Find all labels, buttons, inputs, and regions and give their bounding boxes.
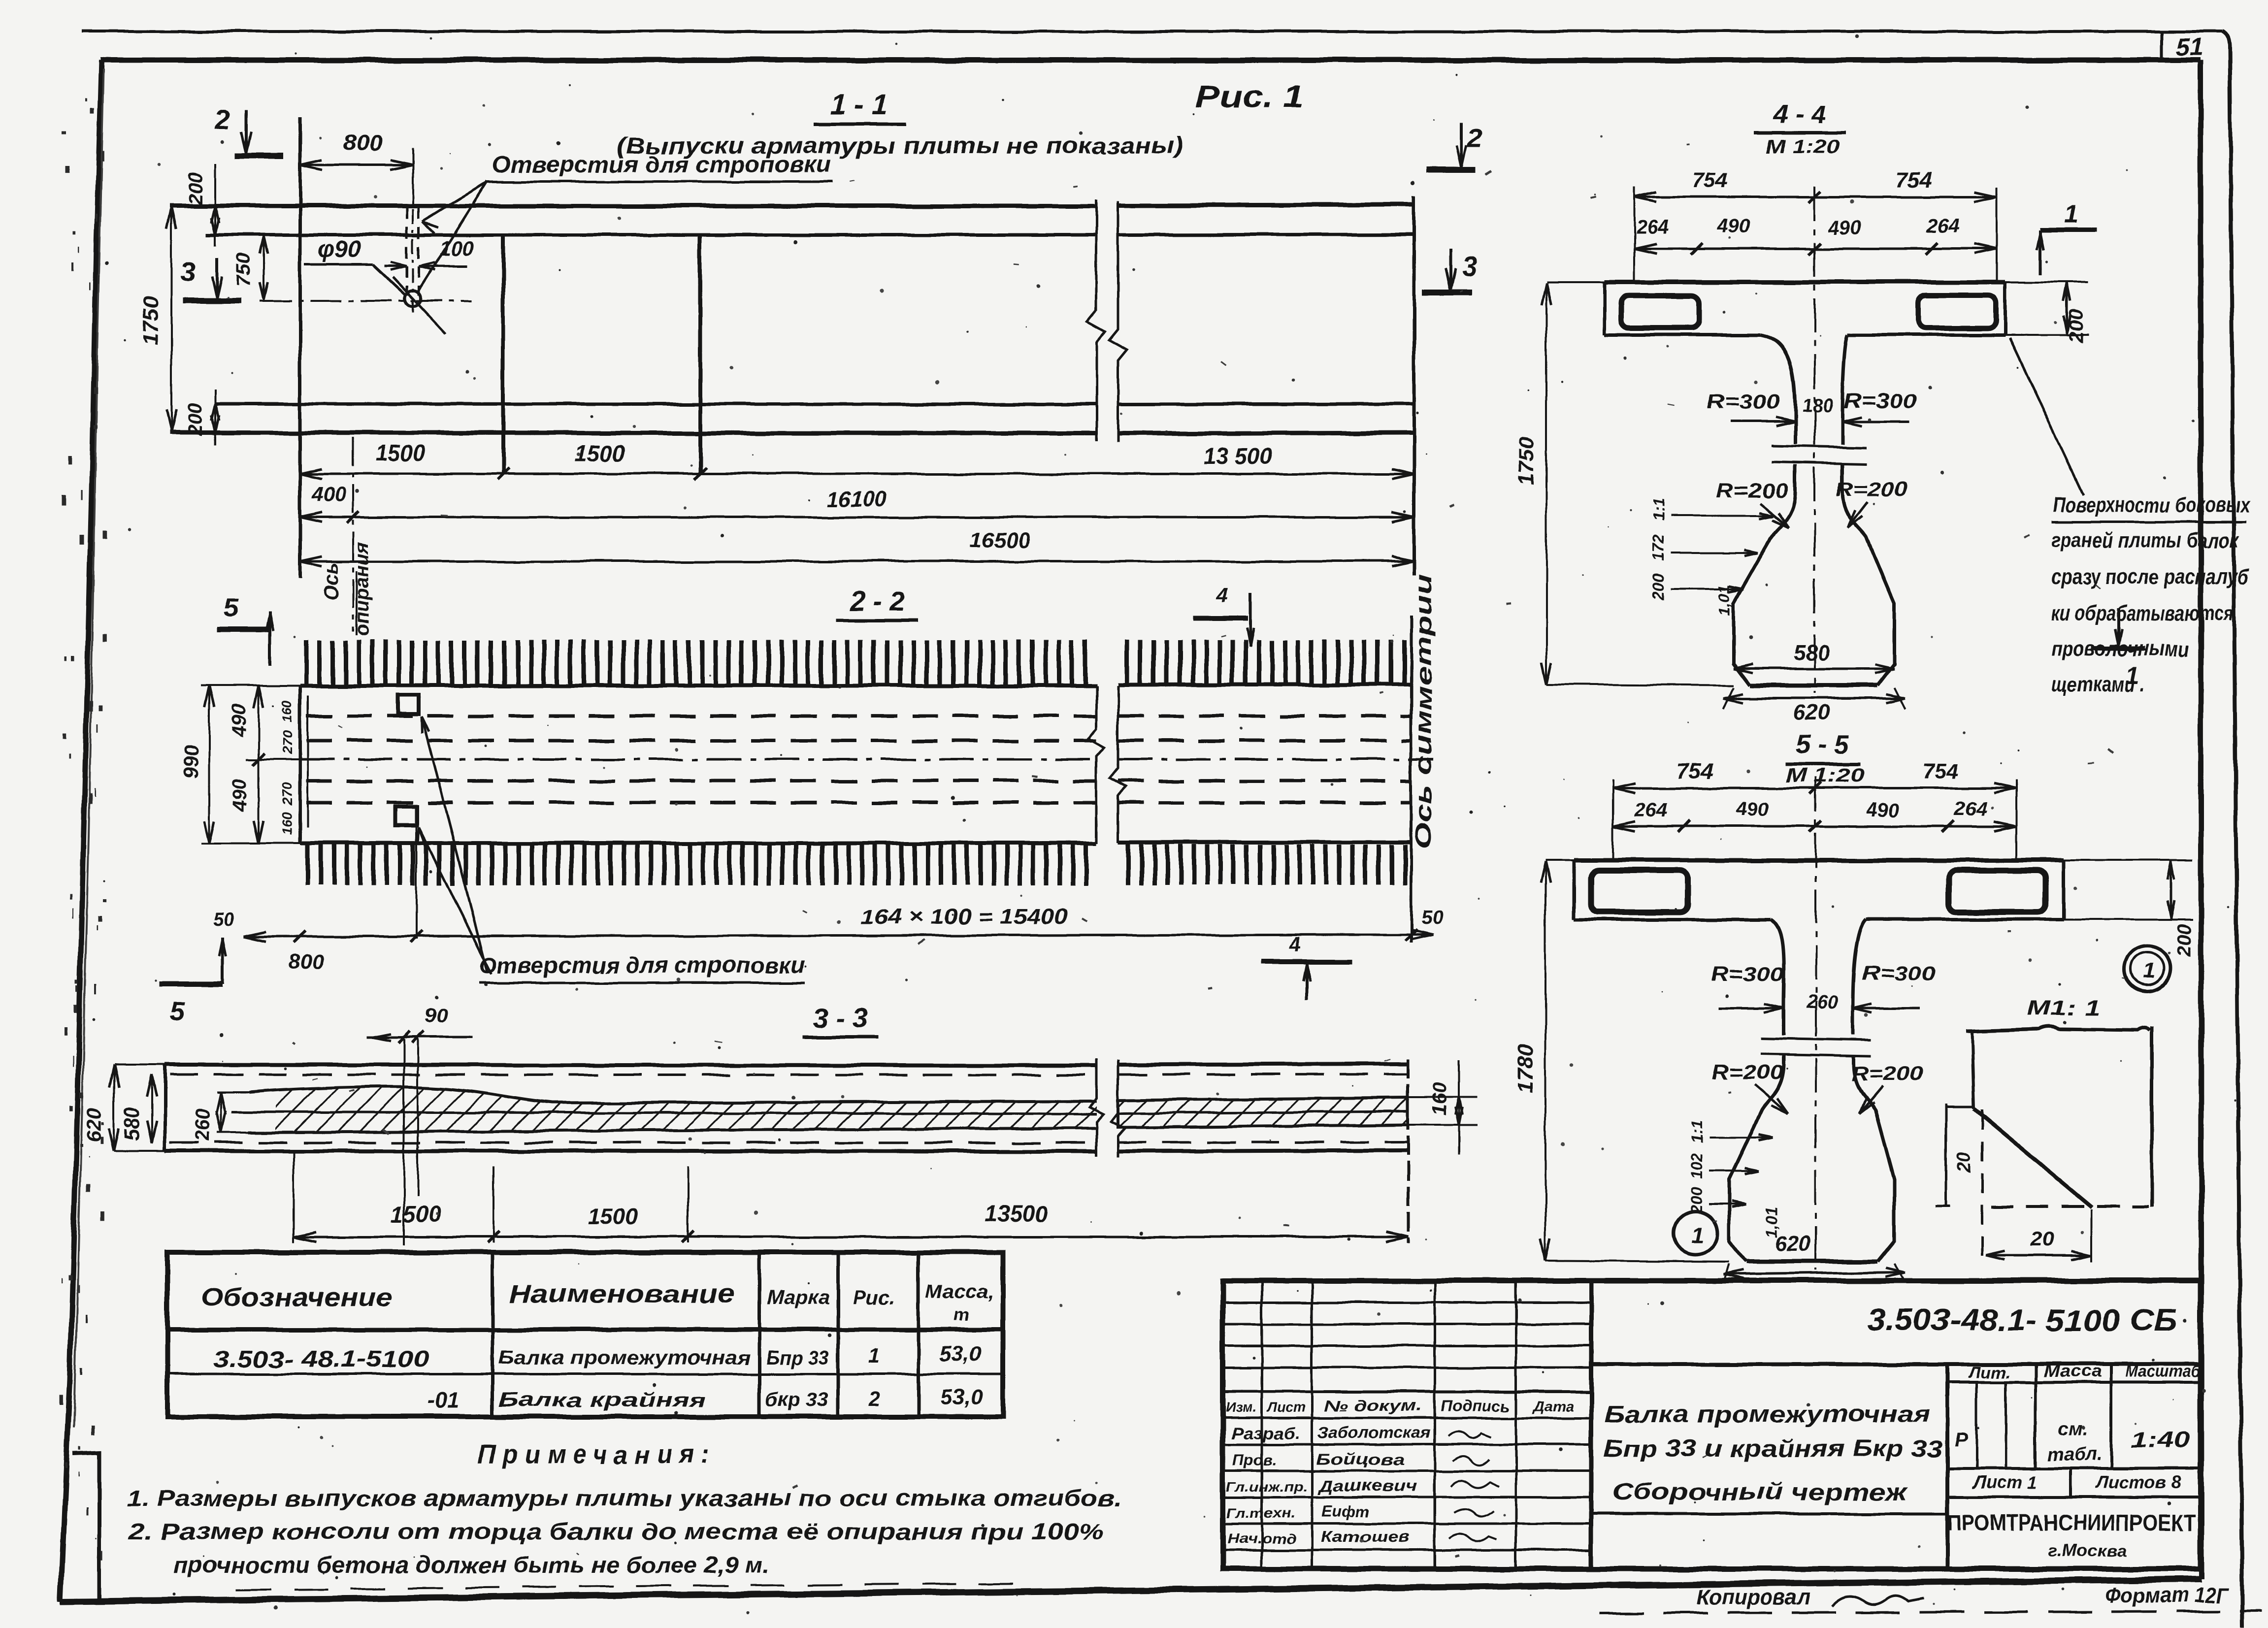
svg-text:2 - 2: 2 - 2 bbox=[850, 586, 905, 617]
3-3 bottom dim row bbox=[294, 1236, 1408, 1238]
svg-text:Бойцова: Бойцова bbox=[1316, 1450, 1405, 1468]
svg-text:табл.: табл. bbox=[2047, 1444, 2102, 1465]
svg-text:Отверстия для строповки: Отверстия для строповки bbox=[492, 152, 831, 177]
svg-text:1: 1 bbox=[2064, 200, 2078, 228]
svg-text:4 - 4: 4 - 4 bbox=[1773, 99, 1827, 129]
parts table col lines bbox=[491, 1252, 494, 1417]
svg-text:750: 750 bbox=[233, 254, 255, 287]
svg-text:264: 264 bbox=[1954, 798, 1988, 820]
3-3 dim 260 bbox=[220, 1092, 222, 1133]
title block right divider bbox=[1945, 1364, 1949, 1569]
5-5 bottom edge bbox=[1746, 1260, 1877, 1264]
scan noise specks bbox=[1455, 73, 1457, 75]
detail chamfer hypotenuse bbox=[1974, 1109, 2092, 1207]
3-3 hatched core right bbox=[1118, 1098, 1408, 1128]
svg-text:Еифт: Еифт bbox=[1321, 1502, 1370, 1520]
svg-text:800: 800 bbox=[288, 950, 325, 974]
svg-text:90: 90 bbox=[425, 1004, 448, 1027]
title block lit subcells bbox=[1975, 1382, 1978, 1468]
svg-text:проволочными: проволочными bbox=[2051, 637, 2189, 661]
svg-text:3.503-48.1- 5100 СБ: 3.503-48.1- 5100 СБ bbox=[1867, 1303, 2177, 1337]
detail balloon 1 double circle bbox=[2125, 946, 2170, 991]
svg-text:50: 50 bbox=[1421, 907, 1444, 928]
svg-text:2: 2 bbox=[1466, 123, 1482, 154]
svg-text:13 500: 13 500 bbox=[1203, 443, 1273, 469]
4-4 slab right edge bbox=[2004, 282, 2007, 335]
5-5 dim 620 bottom bbox=[1724, 1272, 1905, 1274]
svg-text:1 - 1: 1 - 1 bbox=[831, 89, 888, 121]
svg-text:1: 1 bbox=[2143, 959, 2155, 983]
svg-text:Балка промежуточная: Балка промежуточная bbox=[498, 1347, 751, 1368]
main border left (skewed rough) bbox=[61, 60, 101, 1601]
svg-text:400: 400 bbox=[311, 483, 346, 506]
3-3 core outline top bbox=[249, 1087, 1096, 1103]
svg-text:Подпись: Подпись bbox=[1441, 1397, 1510, 1415]
3-3 dim 620 bbox=[113, 1065, 115, 1151]
svg-text:бкр 33: бкр 33 bbox=[765, 1389, 828, 1411]
4-4 slab dim 200 right bbox=[2005, 281, 2088, 283]
4-4 dim line 754s bbox=[1634, 196, 1997, 198]
page outer top rule bbox=[82, 30, 2222, 33]
main border top bbox=[100, 58, 2201, 63]
title block left col lines bbox=[1261, 1281, 1263, 1569]
svg-text:R=200: R=200 bbox=[1716, 479, 1788, 502]
svg-text:754: 754 bbox=[1896, 168, 1932, 192]
5-5 slab right edge bbox=[2062, 860, 2066, 919]
svg-text:16500: 16500 bbox=[970, 528, 1030, 553]
svg-text:5 - 5: 5 - 5 bbox=[1796, 730, 1849, 759]
svg-text:Обозначение: Обозначение bbox=[200, 1283, 393, 1312]
main border right bbox=[2201, 60, 2202, 1579]
leader lines to holes 1-1 bbox=[423, 182, 487, 222]
4-4 center axis bbox=[1813, 186, 1815, 693]
svg-text:1: 1 bbox=[1691, 1222, 1704, 1248]
5-5 dim line 754s bbox=[1613, 787, 2016, 789]
svg-text:М 1:20: М 1:20 bbox=[1786, 765, 1865, 786]
extension for dim 800 bbox=[412, 148, 414, 207]
detail dim 20 bottom bbox=[1986, 1254, 2091, 1257]
svg-text:260: 260 bbox=[1806, 992, 1838, 1013]
svg-text:53,0: 53,0 bbox=[940, 1385, 983, 1409]
svg-text:5: 5 bbox=[170, 997, 185, 1026]
4-4 neck dim arrows bbox=[1730, 421, 1795, 423]
svg-text:160: 160 bbox=[1429, 1083, 1450, 1116]
3-3 dim 160 right bbox=[1408, 1097, 1478, 1099]
svg-text:R=200: R=200 bbox=[1836, 478, 1907, 501]
svg-text:270: 270 bbox=[279, 782, 295, 806]
5-5 web right profile bbox=[1853, 919, 1894, 1262]
5-5 slab left edge bbox=[1573, 860, 1576, 919]
svg-text:М 1:20: М 1:20 bbox=[1766, 136, 1840, 158]
title block list row line bbox=[1947, 1467, 2201, 1470]
svg-text:180: 180 bbox=[1802, 395, 1833, 416]
svg-text:ки обрабатываются: ки обрабатываются bbox=[2051, 601, 2234, 625]
5-5 height dim 1780 bbox=[1545, 861, 1546, 1261]
bearing axis dash-dot bbox=[352, 437, 354, 631]
4-4 dim extensions bbox=[1633, 187, 1635, 282]
svg-text:1750: 1750 bbox=[1514, 437, 1539, 485]
svg-text:Гл.техн.: Гл.техн. bbox=[1226, 1505, 1295, 1521]
svg-text:Лит.: Лит. bbox=[1968, 1363, 2010, 1382]
page number box divider bbox=[2160, 32, 2163, 60]
beam 1-1 break line b bbox=[1109, 201, 1127, 442]
leader lines to holes 2-2 bbox=[422, 716, 488, 973]
svg-text:Листов 8: Листов 8 bbox=[2095, 1472, 2180, 1492]
svg-text:R=200: R=200 bbox=[1851, 1062, 1923, 1085]
svg-text:№ докум.: № докум. bbox=[1324, 1397, 1422, 1415]
2-2 hole extension line bbox=[415, 827, 417, 940]
4-4 slab void left bbox=[1621, 295, 1699, 328]
svg-text:Отверстия для строповки: Отверстия для строповки bbox=[479, 952, 804, 978]
svg-text:264: 264 bbox=[1926, 215, 1960, 237]
dim 200 bottom left bbox=[214, 389, 216, 446]
svg-text:Бпр 33 и крайняя Бкр 33: Бпр 33 и крайняя Бкр 33 bbox=[1603, 1436, 1943, 1462]
svg-text:Дата: Дата bbox=[1532, 1399, 1574, 1415]
svg-text:Рис.: Рис. bbox=[854, 1287, 895, 1308]
svg-text:580: 580 bbox=[1793, 641, 1830, 665]
svg-text:М1: 1: М1: 1 bbox=[2027, 996, 2101, 1020]
svg-text:754: 754 bbox=[1677, 759, 1713, 783]
svg-text:260: 260 bbox=[192, 1108, 213, 1142]
svg-text:1,01: 1,01 bbox=[1715, 585, 1733, 615]
dim 750 left bbox=[263, 235, 265, 301]
3-3 break line a bbox=[1089, 1059, 1103, 1156]
5-5 slab dim 200 right bbox=[2064, 859, 2193, 861]
svg-text:1. Размеры выпусков арматуры п: 1. Размеры выпусков арматуры плиты указа… bbox=[127, 1485, 1121, 1511]
3-3 break line b bbox=[1111, 1060, 1125, 1157]
svg-text:Ось: Ось bbox=[321, 562, 342, 600]
beam 1-1 inner top line bbox=[206, 233, 1096, 237]
svg-text:102: 102 bbox=[1688, 1153, 1706, 1179]
svg-text:Лист 1: Лист 1 bbox=[1972, 1472, 2038, 1492]
svg-text:щетками .: щетками . bbox=[2051, 672, 2145, 696]
svg-text:опирания: опирания bbox=[351, 542, 373, 636]
2-2 outline bottom edge bbox=[300, 841, 1096, 845]
5-5 slab void left bbox=[1591, 871, 1688, 912]
svg-text:53,0: 53,0 bbox=[939, 1342, 982, 1366]
svg-text:2: 2 bbox=[214, 104, 230, 135]
dim 1750 left bbox=[170, 207, 172, 432]
2-2 bottom rebar comb left bbox=[305, 845, 310, 885]
beam 1-1 inner bottom line bbox=[215, 404, 1096, 404]
beam 1-1 break line a bbox=[1087, 199, 1105, 441]
svg-text:Копировал: Копировал bbox=[1697, 1585, 1810, 1609]
5-5 height dim extensions bbox=[1545, 859, 1574, 861]
svg-text:Гл.инж.пр.: Гл.инж.пр. bbox=[1226, 1479, 1308, 1494]
4-4 slab void right bbox=[1918, 295, 1996, 328]
parts table outer bbox=[167, 1252, 1003, 1417]
svg-text:3 - 3: 3 - 3 bbox=[813, 1002, 868, 1033]
4-4 dim 620 bbox=[1724, 697, 1905, 700]
svg-text:Лист: Лист bbox=[1267, 1400, 1306, 1415]
svg-text:1500: 1500 bbox=[575, 440, 625, 466]
detail bottom dashed bbox=[1991, 1205, 2149, 1208]
svg-text:1780: 1780 bbox=[1513, 1044, 1538, 1093]
4-4 dim line 264s bbox=[1634, 248, 1997, 250]
svg-text:51: 51 bbox=[2176, 33, 2203, 61]
svg-text:490: 490 bbox=[1717, 215, 1750, 237]
svg-text:3: 3 bbox=[1462, 251, 1477, 282]
parts table row line bbox=[167, 1373, 1003, 1375]
2-2 dim extension top bbox=[201, 684, 300, 686]
svg-text:490: 490 bbox=[1866, 799, 1899, 821]
svg-text:2. Размер консоли от торца бал: 2. Размер консоли от торца балки до мест… bbox=[129, 1519, 1104, 1544]
side note underline bbox=[2051, 521, 2246, 523]
svg-text:200: 200 bbox=[2065, 310, 2087, 343]
2-2 dashed strand row 3 bbox=[306, 780, 1096, 783]
svg-text:490: 490 bbox=[229, 779, 251, 813]
2-2 dim extension mid bbox=[246, 758, 305, 760]
4-4 slab left edge bbox=[1603, 282, 1607, 335]
svg-text:264: 264 bbox=[1634, 799, 1668, 821]
4-4 neck break marks bbox=[1772, 446, 1867, 448]
notes area inner border jog bbox=[73, 1453, 99, 1599]
svg-text:172: 172 bbox=[1649, 534, 1667, 561]
3-3 left end bbox=[164, 1065, 167, 1151]
hole offset dim 100 bbox=[384, 265, 407, 267]
svg-text:160: 160 bbox=[279, 812, 295, 835]
svg-text:3: 3 bbox=[180, 256, 196, 287]
svg-text:Марка: Марка bbox=[767, 1287, 830, 1308]
svg-text:Нач.отд: Нач.отд bbox=[1227, 1531, 1296, 1547]
svg-text:ПРОМТРАНСНИИПРОЕКТ: ПРОМТРАНСНИИПРОЕКТ bbox=[1947, 1510, 2196, 1535]
lifting hole diagonal slash bbox=[393, 277, 446, 334]
beam 1-1 top edge bbox=[169, 204, 1096, 208]
3-3 right end bbox=[1407, 1059, 1410, 1243]
2-2 top rebar comb left bbox=[304, 640, 309, 684]
svg-text:1750: 1750 bbox=[138, 297, 163, 345]
svg-text:13500: 13500 bbox=[985, 1201, 1048, 1226]
2-2 dashed strand row 1 bbox=[306, 715, 1096, 718]
svg-text:200: 200 bbox=[1649, 574, 1667, 601]
dim row 400 16100 bbox=[300, 516, 1414, 519]
svg-text:3.503- 48.1-5100: 3.503- 48.1-5100 bbox=[213, 1346, 430, 1372]
4-4 leader to note bbox=[2009, 338, 2083, 495]
5-5 slab void right bbox=[1948, 871, 2046, 912]
2-2 dashed strand row 2 bbox=[306, 739, 1096, 743]
4-4 bottom edge bbox=[1750, 684, 1877, 688]
svg-text:754: 754 bbox=[1922, 759, 1958, 783]
4-4 web right profile bbox=[1842, 335, 1894, 685]
dim row 16500 bbox=[300, 560, 1414, 563]
svg-text:580: 580 bbox=[120, 1107, 143, 1141]
detail right edge bbox=[2150, 1026, 2154, 1207]
title block lit header bbox=[2034, 1364, 2037, 1468]
3-3 dim extensions bbox=[293, 1152, 295, 1243]
2-2 lifting hole lower bbox=[396, 807, 417, 825]
svg-text:Масса,: Масса, bbox=[925, 1281, 994, 1302]
svg-text:1:1: 1:1 bbox=[1649, 498, 1667, 521]
svg-text:200: 200 bbox=[2173, 924, 2195, 958]
beam 1-1 left end bbox=[298, 117, 302, 579]
main border bottom bbox=[61, 1579, 2202, 1601]
svg-text:Формат 12Г: Формат 12Г bbox=[2105, 1583, 2230, 1607]
svg-text:1500: 1500 bbox=[588, 1204, 638, 1229]
dim 200 top left bbox=[214, 163, 216, 246]
svg-text:264: 264 bbox=[1636, 216, 1669, 238]
svg-text:1500: 1500 bbox=[391, 1202, 441, 1227]
4-4 dim 580 bbox=[1734, 668, 1894, 670]
svg-text:Ось симметрии: Ось симметрии bbox=[1411, 574, 1436, 849]
svg-text:R=300: R=300 bbox=[1710, 962, 1784, 985]
2-2 dim 990 bbox=[208, 685, 210, 843]
svg-text:т: т bbox=[953, 1304, 969, 1325]
svg-text:490: 490 bbox=[1736, 798, 1769, 820]
svg-text:800: 800 bbox=[344, 130, 382, 156]
svg-text:1:40: 1:40 bbox=[2131, 1427, 2190, 1453]
title block outer bbox=[1223, 1281, 2201, 1569]
svg-text:Пров.: Пров. bbox=[1233, 1451, 1277, 1469]
svg-text:2: 2 bbox=[868, 1387, 880, 1410]
3-3 core outline bottom bbox=[249, 1128, 1096, 1133]
svg-text:5: 5 bbox=[223, 593, 238, 622]
lifting hole circle bbox=[405, 291, 421, 306]
3-3 dim 580 bbox=[151, 1074, 153, 1143]
svg-text:20: 20 bbox=[1954, 1152, 1974, 1173]
svg-text:4: 4 bbox=[1216, 583, 1228, 606]
notes dashed underline bbox=[236, 1583, 1034, 1590]
5-5 slab bottom edge bbox=[1574, 918, 1771, 921]
2-2 dim line 490/490 bbox=[258, 685, 260, 843]
dim 800 top bbox=[300, 164, 413, 166]
svg-text:200: 200 bbox=[185, 172, 206, 205]
title area divider bbox=[1591, 1512, 1947, 1515]
4-4 slab top edge bbox=[1605, 280, 2005, 285]
svg-text:Катошев: Катошев bbox=[1321, 1528, 1410, 1546]
svg-text:Балка промежуточная: Балка промежуточная bbox=[1605, 1401, 1930, 1428]
parts table header line bbox=[167, 1328, 1003, 1332]
2-2 right end bbox=[1410, 615, 1413, 943]
2-2 dashed strand row 4 bbox=[306, 801, 1096, 805]
svg-text:490: 490 bbox=[1828, 217, 1861, 239]
detail strip left bbox=[1945, 1104, 1948, 1206]
2-2 bottom dim line bbox=[244, 935, 1433, 937]
svg-text:Заболотская: Заболотская bbox=[1317, 1424, 1431, 1441]
svg-text:160: 160 bbox=[279, 700, 295, 723]
beam 1-1 right end bbox=[1413, 196, 1416, 575]
title block main divider bbox=[1589, 1281, 1594, 1569]
svg-text:Сборочный чертеж: Сборочный чертеж bbox=[1611, 1479, 1908, 1505]
svg-text:граней плиты балок: граней плиты балок bbox=[2051, 528, 2239, 553]
5-5 slab top edge bbox=[1574, 858, 2064, 863]
5-5 neck dim arrows bbox=[1719, 1008, 1784, 1010]
5-5 neck break marks bbox=[1761, 1038, 1872, 1040]
svg-text:Рис. 1: Рис. 1 bbox=[1195, 79, 1304, 114]
5-5 web left profile bbox=[1729, 919, 1784, 1262]
2-2 outline top edge bbox=[300, 684, 1096, 687]
svg-text:прочности бетона должен быть н: прочности бетона должен быть не более 2,… bbox=[173, 1552, 769, 1578]
svg-text:Масса: Масса bbox=[2043, 1362, 2102, 1381]
2-2 bottom rebar comb right bbox=[1126, 845, 1130, 885]
svg-text:-01: -01 bbox=[427, 1388, 460, 1413]
2-2 break line a bbox=[1088, 685, 1104, 843]
svg-text:φ90: φ90 bbox=[317, 236, 360, 262]
3-3 top edge bbox=[165, 1065, 1096, 1066]
2-2 top rebar comb right bbox=[1125, 640, 1129, 684]
dim row 1500 1500 13500 bbox=[300, 473, 1414, 475]
beam 1-1 extension line at 1500 tick b bbox=[698, 236, 702, 474]
4-4 web left profile bbox=[1734, 335, 1795, 685]
svg-text:сразу после распалуб: сразу после распалуб bbox=[2051, 565, 2249, 589]
svg-text:50: 50 bbox=[213, 909, 235, 930]
2-2 dim extension bottom bbox=[201, 842, 300, 844]
svg-text:R=300: R=300 bbox=[1862, 961, 1936, 984]
svg-text:990: 990 bbox=[179, 745, 202, 780]
svg-text:Дашкевич: Дашкевич bbox=[1317, 1477, 1417, 1495]
2-2 left end bbox=[298, 685, 302, 843]
lifting hole dashed sides bbox=[406, 207, 408, 295]
svg-text:20: 20 bbox=[2030, 1227, 2054, 1250]
svg-text:Бпр 33: Бпр 33 bbox=[766, 1347, 829, 1368]
svg-text:1500: 1500 bbox=[375, 440, 426, 466]
svg-text:R=300: R=300 bbox=[1843, 389, 1917, 412]
3-3 hatched core left bbox=[276, 1086, 1096, 1133]
3-3 dashed bottom bbox=[170, 1142, 1096, 1143]
svg-text:Масштаб: Масштаб bbox=[2126, 1362, 2201, 1381]
svg-text:620: 620 bbox=[1775, 1232, 1811, 1256]
svg-text:164 × 100 = 15400: 164 × 100 = 15400 bbox=[861, 905, 1068, 929]
svg-text:Балка крайняя: Балка крайняя bbox=[498, 1389, 705, 1411]
bottom dashed rule bbox=[1600, 1611, 2262, 1613]
5-5 dim extensions bbox=[1612, 779, 1614, 860]
2-2 center dash-dot row bbox=[300, 758, 1096, 761]
5-5 center axis bbox=[1815, 777, 1817, 1270]
svg-text:Наименование: Наименование bbox=[508, 1280, 735, 1308]
detail top edge bbox=[1966, 1027, 2150, 1031]
svg-text:200: 200 bbox=[185, 403, 206, 437]
svg-text:R=300: R=300 bbox=[1707, 390, 1780, 413]
beam 1-1 bottom edge bbox=[169, 433, 1096, 433]
svg-text:Изм.: Изм. bbox=[1226, 1400, 1257, 1415]
3-3 hole lines bbox=[403, 1039, 405, 1246]
svg-text:Разраб.: Разраб. bbox=[1231, 1425, 1300, 1442]
svg-text:Р: Р bbox=[1955, 1429, 1968, 1450]
2-2 break line b bbox=[1110, 685, 1126, 843]
svg-text:270: 270 bbox=[279, 731, 295, 754]
balloon 1 под 5-5 bbox=[1674, 1211, 1717, 1255]
svg-text:754: 754 bbox=[1692, 168, 1728, 192]
title block left row lines bbox=[1223, 1302, 1591, 1304]
4-4 slab bottom edge bbox=[1605, 333, 1761, 337]
3-3 core mid line bbox=[231, 1112, 1096, 1114]
3-3 dashed top bbox=[170, 1074, 1096, 1075]
5-5 dim line 264s bbox=[1613, 825, 2016, 828]
svg-text:П р и м е ч а н и я :: П р и м е ч а н и я : bbox=[478, 1440, 709, 1469]
detail dashed vertical bbox=[1981, 1110, 1983, 1262]
beam 1-1 extension line at 1500 tick a bbox=[501, 236, 505, 474]
detail left edge top bbox=[1972, 1031, 1974, 1109]
svg-text:4: 4 bbox=[1288, 933, 1300, 956]
svg-text:490: 490 bbox=[228, 704, 250, 737]
svg-text:R=200: R=200 bbox=[1711, 1061, 1783, 1084]
svg-text:1:1: 1:1 bbox=[1688, 1120, 1706, 1143]
svg-text:620: 620 bbox=[1793, 701, 1830, 725]
title block org line bbox=[1947, 1496, 2201, 1498]
page outer right rule bbox=[2222, 32, 2242, 1628]
svg-text:г.Москва: г.Москва bbox=[2048, 1541, 2127, 1560]
svg-text:1: 1 bbox=[868, 1344, 880, 1368]
svg-text:Поверхности боковых: Поверхности боковых bbox=[2053, 493, 2250, 517]
3-3 bottom edge bbox=[165, 1151, 1096, 1151]
svg-text:16100: 16100 bbox=[827, 487, 887, 511]
4-4 height dim 1750 bbox=[1545, 283, 1547, 684]
title block number divider bbox=[1591, 1362, 2201, 1366]
2-2 lifting hole upper bbox=[398, 695, 419, 714]
lifting hole center line bbox=[260, 300, 472, 302]
4-4 height dim extensions bbox=[1546, 281, 1605, 283]
